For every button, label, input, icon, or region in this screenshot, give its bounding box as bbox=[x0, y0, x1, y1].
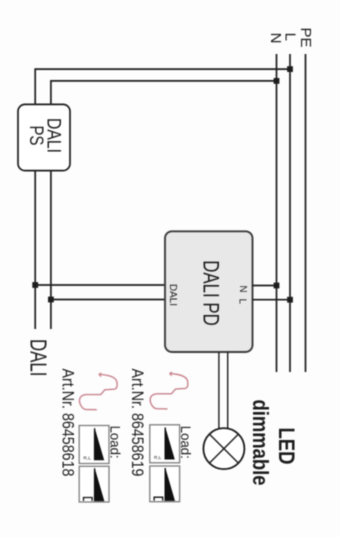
lamp wire upper bbox=[227, 352, 229, 428]
controller DALI PD bbox=[165, 231, 253, 352]
junction dot DALI lower bbox=[32, 282, 38, 288]
wire DALI bus lower bbox=[34, 171, 36, 329]
svg-text:DALI PD: DALI PD bbox=[199, 260, 224, 326]
svg-text:Load:: Load: bbox=[178, 426, 194, 459]
arrow squiggle row2 bbox=[79, 374, 117, 409]
junction dot pin N on N bus bbox=[274, 283, 280, 289]
svg-text:DALI: DALI bbox=[167, 284, 179, 306]
wire PS feed to L bbox=[35, 69, 290, 104]
junction dot pin L on L bus bbox=[287, 297, 293, 303]
load icon C row1 bbox=[150, 466, 180, 502]
svg-text:Load:: Load: bbox=[108, 426, 124, 459]
svg-text:DALI: DALI bbox=[26, 339, 52, 377]
wire DALI branch 1 bbox=[35, 284, 166, 286]
load icon C row2 bbox=[79, 466, 109, 502]
junction dot on N bus bbox=[274, 78, 280, 84]
svg-text:PE: PE bbox=[297, 27, 314, 47]
svg-text:L: L bbox=[237, 299, 248, 305]
wire DALI bus upper bbox=[50, 171, 52, 329]
arrow squiggle row1 bbox=[150, 374, 188, 409]
L bus line bbox=[289, 54, 291, 372]
svg-text:Art.Nr. 86458618: Art.Nr. 86458618 bbox=[59, 369, 78, 477]
N bus line bbox=[276, 54, 278, 372]
lamp E1 bbox=[203, 428, 244, 469]
svg-text:R,L: R,L bbox=[83, 456, 91, 462]
pin N wire bbox=[253, 285, 277, 287]
lamp wire lower bbox=[218, 352, 220, 428]
svg-text:N: N bbox=[267, 33, 284, 44]
load icon R,L row2 bbox=[79, 426, 109, 464]
load icon R,L row1 bbox=[150, 425, 180, 463]
PE bus line bbox=[305, 54, 307, 372]
junction dot DALI upper bbox=[48, 297, 54, 303]
wire PS feed to N bbox=[51, 81, 277, 105]
junction dot on L bus bbox=[287, 66, 293, 72]
svg-text:PS: PS bbox=[25, 126, 46, 146]
svg-text:LED: LED bbox=[274, 428, 299, 465]
pin L wire bbox=[253, 299, 291, 301]
svg-text:R,L: R,L bbox=[154, 455, 162, 461]
power supply DALI PS bbox=[18, 104, 70, 170]
svg-text:Art.Nr. 86458619: Art.Nr. 86458619 bbox=[128, 369, 147, 477]
svg-text:dimmable: dimmable bbox=[248, 400, 273, 486]
wire DALI branch 2 bbox=[51, 299, 166, 301]
svg-text:N: N bbox=[237, 285, 248, 292]
